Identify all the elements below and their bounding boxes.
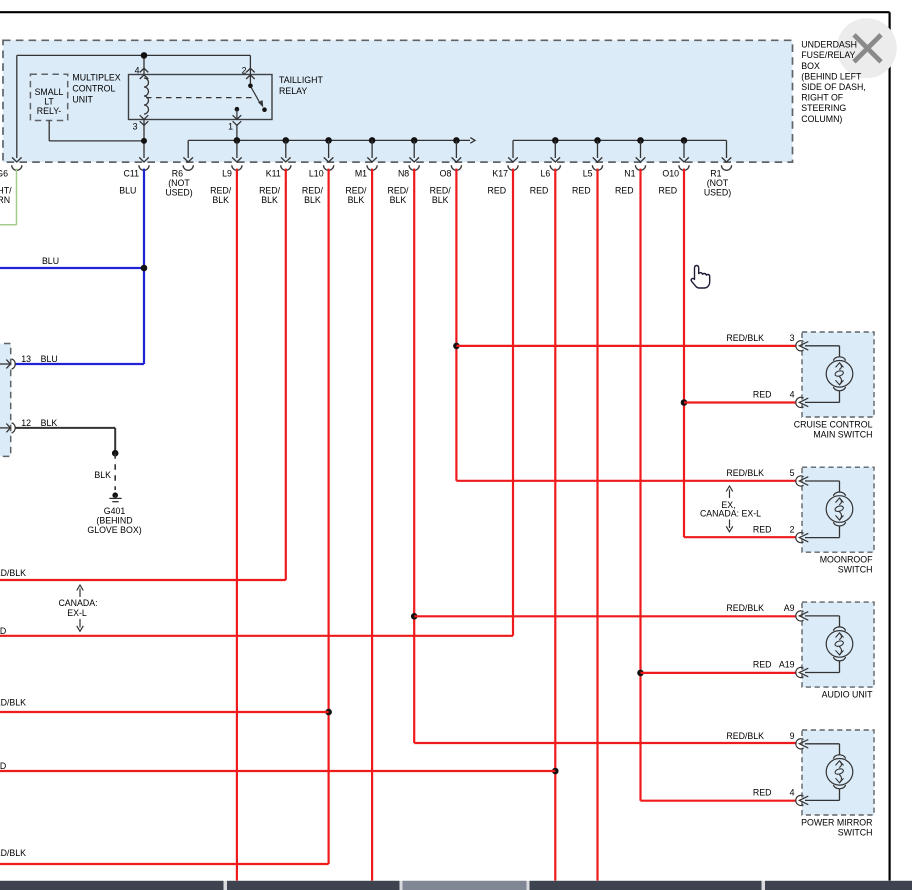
- moonroof switch S2 labels: [726, 468, 873, 575]
- node: BLK junction: [112, 450, 119, 457]
- node: O10 / cruise pin 4 junction: [681, 399, 688, 406]
- wire RED N1: [641, 169, 797, 801]
- svg-text:RED: RED: [0, 626, 6, 636]
- svg-text:4: 4: [135, 66, 140, 76]
- svg-text:RED: RED: [488, 186, 507, 196]
- svg-text:O8: O8: [440, 169, 452, 179]
- svg-text:R6: R6: [172, 169, 183, 179]
- node: bus junction O10: [681, 137, 688, 144]
- svg-text:STEERING: STEERING: [801, 103, 846, 113]
- svg-text:RIGHT OF: RIGHT OF: [801, 93, 843, 103]
- wire BLK from pin 12: [16, 428, 116, 453]
- wire BLU horizontal from left edge: [0, 256, 144, 268]
- relay switch fixed contact from pin 2: [248, 75, 253, 89]
- bus: relay pin 1 distribution (left): [188, 138, 475, 144]
- svg-text:FUSE/RELAY: FUSE/RELAY: [801, 50, 855, 60]
- svg-text:CONTROL: CONTROL: [72, 84, 115, 94]
- svg-text:O10: O10: [662, 169, 679, 179]
- svg-text:EX-L: EX-L: [67, 608, 87, 618]
- wire WHT/GRN from G6: [0, 169, 17, 225]
- svg-text:LT: LT: [44, 97, 54, 107]
- svg-text:2: 2: [242, 66, 247, 76]
- svg-text:4: 4: [790, 389, 795, 399]
- ground G401: [109, 492, 121, 501]
- small lt relay (dashed box): [30, 74, 67, 120]
- svg-text:GRN: GRN: [0, 195, 10, 205]
- EX, CANADA: EX-L range arrow (moonroof): [700, 486, 761, 532]
- svg-text:SWITCH: SWITCH: [838, 827, 873, 837]
- wire: relay pin 3 to C11: [143, 120, 145, 159]
- relay pin 1: [228, 115, 241, 131]
- svg-text:GLOVE BOX): GLOVE BOX): [87, 525, 141, 535]
- node: bus junction O8: [453, 137, 460, 144]
- svg-text:RED: RED: [572, 186, 591, 196]
- connector L10: [302, 157, 334, 205]
- svg-text:COLUMN): COLUMN): [801, 114, 842, 124]
- svg-text:13: 13: [21, 354, 31, 364]
- svg-text:RED/: RED/: [302, 186, 324, 196]
- svg-text:BLK: BLK: [348, 195, 365, 205]
- wire RED/BLK N8: [414, 169, 796, 743]
- node: bus junction L10: [325, 137, 332, 144]
- svg-text:RED: RED: [530, 186, 549, 196]
- svg-text:MAIN SWITCH: MAIN SWITCH: [813, 429, 872, 439]
- connector L6: [530, 157, 561, 195]
- relay pin 2: [242, 66, 255, 80]
- node: junction pin3 / small relay wire: [141, 138, 147, 144]
- node: bus junction L6: [552, 137, 559, 144]
- wire RED L5: [596, 169, 598, 881]
- svg-text:RED: RED: [615, 186, 634, 196]
- svg-text:BLK: BLK: [41, 418, 58, 428]
- svg-text:G6: G6: [0, 169, 8, 179]
- svg-text:RED/BLK: RED/BLK: [0, 848, 26, 858]
- svg-text:K11: K11: [266, 169, 281, 179]
- connector R1 (not used): [704, 157, 732, 197]
- node: L6 / left wire junction: [552, 768, 559, 775]
- wire RED/BLK L9: [236, 169, 238, 881]
- cruise control main switch S1 lamp: [826, 357, 853, 391]
- label: UNDERDASH FUSE/RELAY BOX location: [801, 40, 866, 124]
- mouse cursor (hand): [691, 266, 710, 289]
- connector K17: [488, 157, 519, 195]
- svg-text:RED/BLK: RED/BLK: [726, 603, 764, 613]
- cruise control main switch S1 box: [796, 332, 874, 417]
- wire: bus drops to connectors: [188, 140, 726, 158]
- relay label: [279, 75, 323, 96]
- power mirror switch S3 box: [796, 730, 874, 815]
- connector C11: [119, 157, 149, 195]
- cruise control main switch S1 labels: [726, 333, 872, 440]
- wire RED/BLK O8: [456, 169, 796, 481]
- svg-text:BOX: BOX: [801, 61, 820, 71]
- node: bus junction K11: [283, 137, 290, 144]
- pin 12 connector: [0, 418, 57, 433]
- relay coil: [144, 78, 149, 114]
- svg-text:2: 2: [790, 525, 795, 535]
- node: bus junction N1: [637, 137, 644, 144]
- svg-text:SIDE OF DASH,: SIDE OF DASH,: [801, 82, 866, 92]
- pin 13 connector: [0, 354, 58, 369]
- taillight relay U1: [129, 75, 273, 120]
- close (X) button glyph: [854, 35, 881, 62]
- bus: right distribution K17-R1: [513, 139, 727, 141]
- wire RED to cruise control pin 4: [684, 401, 797, 403]
- svg-text:POWER MIRROR: POWER MIRROR: [801, 817, 872, 827]
- svg-text:RED/: RED/: [259, 186, 281, 196]
- relay pin 4: [135, 66, 149, 80]
- wire RED/BLK to left edge (L10 tap): [0, 711, 329, 713]
- svg-text:MULTIPLEX: MULTIPLEX: [72, 73, 120, 83]
- node: N8 / audio A9 junction: [411, 613, 418, 620]
- svg-text:RED/BLK: RED/BLK: [0, 568, 26, 578]
- moonroof switch S2 lamp: [826, 492, 853, 526]
- svg-text:RED: RED: [0, 761, 6, 771]
- svg-text:BLK: BLK: [432, 195, 449, 205]
- ground label G401 (BEHIND GLOVE BOX): [87, 506, 141, 535]
- svg-text:5: 5: [790, 468, 795, 478]
- wire: fuse box feed to relay pins 4 and 2: [17, 55, 251, 158]
- node: bus junction N8: [411, 137, 418, 144]
- connector N1: [615, 157, 646, 195]
- wire RED/BLK K11: [0, 169, 286, 580]
- CANADA: EX-L range arrow (left): [58, 585, 97, 631]
- multiplex control unit label: [72, 73, 120, 105]
- svg-text:L5: L5: [583, 169, 593, 179]
- wire RED/BLK L10: [0, 169, 329, 864]
- connector L9: [210, 157, 242, 205]
- svg-text:K17: K17: [492, 169, 508, 179]
- svg-text:RED: RED: [753, 660, 772, 670]
- wire: relay pin 1 down to bus: [236, 125, 238, 140]
- svg-text:A19: A19: [779, 660, 795, 670]
- node: L10 / left wire junction: [325, 709, 332, 716]
- svg-text:L10: L10: [309, 169, 324, 179]
- svg-text:4: 4: [790, 787, 795, 797]
- svg-text:RED: RED: [753, 389, 772, 399]
- svg-text:CRUISE CONTROL: CRUISE CONTROL: [794, 419, 873, 429]
- svg-text:BLK: BLK: [261, 195, 278, 205]
- wire BLU to left component pin 13: [16, 363, 145, 365]
- wire RED O10: [684, 169, 797, 538]
- svg-text:(NOT: (NOT: [168, 178, 190, 188]
- svg-text:N8: N8: [398, 169, 409, 179]
- svg-text:M1: M1: [355, 169, 367, 179]
- svg-text:3: 3: [133, 122, 138, 132]
- svg-text:A9: A9: [784, 603, 795, 613]
- svg-text:(NOT: (NOT: [707, 178, 729, 188]
- audio unit U2 labels: [726, 603, 873, 700]
- svg-text:RED/BLK: RED/BLK: [726, 731, 764, 741]
- wire BLU from C11: [143, 169, 145, 364]
- wire RED to audio unit A19: [641, 672, 797, 674]
- svg-text:9: 9: [790, 731, 795, 741]
- svg-text:WHT/: WHT/: [0, 186, 12, 196]
- relay switch movable arm: [251, 87, 267, 112]
- svg-text:RED/BLK: RED/BLK: [0, 698, 26, 708]
- connector G6: [0, 157, 22, 205]
- node: N1 / audio A19 junction: [637, 670, 644, 677]
- moonroof switch S2 box: [796, 467, 874, 552]
- svg-text:RELAY: RELAY: [279, 86, 307, 96]
- svg-text:BLU: BLU: [41, 354, 58, 364]
- node: bus junction M1: [369, 137, 376, 144]
- svg-text:3: 3: [790, 333, 795, 343]
- svg-text:TAILLIGHT: TAILLIGHT: [279, 75, 323, 85]
- svg-text:USED): USED): [704, 188, 731, 198]
- svg-text:G401: G401: [104, 506, 126, 516]
- svg-text:12: 12: [21, 418, 31, 428]
- svg-text:C11: C11: [124, 169, 140, 179]
- audio unit U2 box: [796, 602, 874, 687]
- svg-text:RED: RED: [753, 787, 772, 797]
- wire RED K17: [0, 169, 513, 636]
- svg-text:RED/: RED/: [430, 186, 452, 196]
- svg-text:UNDERDASH: UNDERDASH: [801, 40, 857, 50]
- wire BLK dashed to ground: [94, 453, 115, 490]
- svg-text:BLU: BLU: [42, 256, 59, 266]
- node: junction top wire / pin 4: [141, 52, 148, 59]
- svg-text:1: 1: [228, 122, 233, 132]
- close (X) button circle: [837, 18, 897, 78]
- svg-text:USED): USED): [165, 188, 192, 198]
- wire RED/BLK to audio unit A9: [414, 615, 796, 617]
- svg-text:RED/: RED/: [210, 186, 232, 196]
- connector K11: [259, 157, 291, 205]
- svg-text:RELY-: RELY-: [37, 106, 62, 116]
- svg-text:RED/: RED/: [345, 186, 367, 196]
- svg-text:N1: N1: [624, 169, 635, 179]
- node: BLU junction: [141, 265, 148, 272]
- svg-text:RED/: RED/: [387, 186, 409, 196]
- bottom bar: [0, 881, 912, 890]
- svg-text:MOONROOF: MOONROOF: [820, 555, 873, 565]
- svg-text:BLK: BLK: [212, 195, 229, 205]
- svg-text:L9: L9: [222, 169, 232, 179]
- svg-text:R1: R1: [710, 169, 721, 179]
- svg-text:RED/BLK: RED/BLK: [726, 468, 764, 478]
- node: bus junction L5: [594, 137, 601, 144]
- svg-text:AUDIO UNIT: AUDIO UNIT: [822, 690, 873, 700]
- audio unit U2 lamp: [826, 627, 853, 661]
- svg-text:RED/BLK: RED/BLK: [726, 333, 764, 343]
- svg-text:RED: RED: [753, 525, 772, 535]
- wire RED L6: [554, 169, 556, 881]
- wire: small lt relay to C11 junction: [49, 121, 144, 141]
- relay pin 3: [133, 115, 149, 131]
- svg-text:SWITCH: SWITCH: [838, 565, 873, 575]
- underdash fuse/relay box outline: [3, 40, 793, 162]
- right border line: [888, 12, 890, 881]
- connector M1: [345, 157, 377, 205]
- power mirror switch S3 lamp: [826, 755, 853, 789]
- svg-text:(BEHIND: (BEHIND: [96, 516, 132, 526]
- connector L5: [572, 157, 603, 195]
- svg-text:BLK: BLK: [94, 470, 111, 480]
- relay actuation dashed link: [146, 97, 254, 99]
- connector R6 (not used): [165, 157, 193, 197]
- node: bus junction L9: [234, 137, 241, 144]
- connector O8: [430, 157, 462, 205]
- node: O8 / cruise pin 3 junction: [453, 343, 460, 350]
- svg-text:(BEHIND LEFT: (BEHIND LEFT: [801, 71, 862, 81]
- svg-text:RED: RED: [659, 186, 678, 196]
- top border line: [0, 11, 890, 13]
- power mirror switch S3 labels: [726, 731, 872, 838]
- svg-text:BLK: BLK: [304, 195, 321, 205]
- svg-text:BLK: BLK: [390, 195, 407, 205]
- relay pin 1 contact: [235, 107, 240, 120]
- svg-text:SMALL: SMALL: [35, 87, 64, 97]
- svg-text:CANADA:: CANADA:: [58, 598, 97, 608]
- wire RED/BLK M1: [371, 169, 373, 881]
- svg-text:BLU: BLU: [119, 186, 136, 196]
- connector O10: [659, 157, 690, 195]
- connector N8: [387, 157, 419, 205]
- svg-text:L6: L6: [541, 169, 551, 179]
- svg-text:UNIT: UNIT: [72, 95, 93, 105]
- left component (partial dashed box): [0, 344, 11, 457]
- wire RED to left edge (L6 tap): [0, 770, 555, 772]
- svg-text:CANADA: EX-L: CANADA: EX-L: [700, 509, 761, 519]
- wire RED/BLK to cruise control pin 3: [456, 345, 796, 347]
